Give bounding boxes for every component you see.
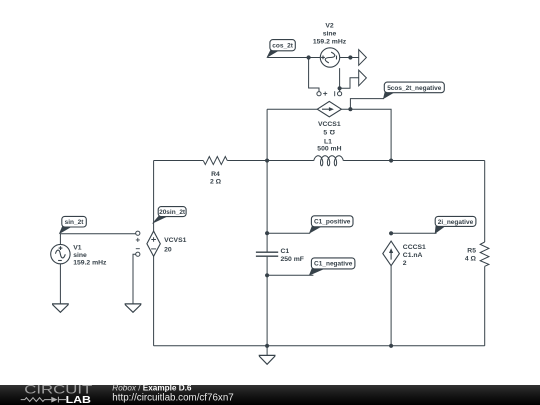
svg-text:sin_2t: sin_2t — [65, 219, 85, 226]
svg-text:VCVS1: VCVS1 — [164, 237, 187, 244]
svg-text:V2: V2 — [325, 22, 334, 29]
svg-text:sine: sine — [323, 31, 337, 38]
svg-text:V1: V1 — [73, 244, 82, 251]
svg-text:R4: R4 — [211, 171, 220, 178]
svg-text:159.2 mHz: 159.2 mHz — [313, 39, 347, 46]
svg-text:5cos_2t_negative: 5cos_2t_negative — [387, 85, 442, 92]
svg-text:500 mH: 500 mH — [317, 146, 341, 153]
svg-text:20sin_2t: 20sin_2t — [159, 209, 186, 216]
svg-text:LAB: LAB — [66, 395, 91, 405]
svg-text:Ω: Ω — [329, 128, 335, 135]
svg-text:VCCS1: VCCS1 — [318, 121, 341, 128]
svg-text:CCCS1: CCCS1 — [403, 244, 426, 251]
svg-text:sine: sine — [73, 252, 87, 259]
svg-text:C1.nA: C1.nA — [403, 252, 423, 259]
svg-text:2 Ω: 2 Ω — [210, 179, 222, 186]
svg-text:4 Ω: 4 Ω — [465, 256, 477, 263]
svg-text:cos_2t: cos_2t — [272, 43, 293, 50]
svg-text:5: 5 — [323, 130, 327, 137]
svg-text:http://circuitlab.com/cf76xn7: http://circuitlab.com/cf76xn7 — [112, 393, 233, 404]
svg-text:R5: R5 — [467, 248, 476, 255]
svg-text:250 mF: 250 mF — [281, 256, 304, 263]
svg-text:C1_positive: C1_positive — [314, 219, 351, 226]
svg-text:20: 20 — [164, 247, 172, 254]
svg-text:159.2 mHz: 159.2 mHz — [73, 259, 107, 266]
svg-text:C1: C1 — [281, 248, 290, 255]
svg-text:L1: L1 — [324, 139, 332, 146]
svg-text:2i_negative: 2i_negative — [438, 219, 474, 226]
svg-text:C1_negative: C1_negative — [314, 261, 353, 268]
svg-text:2: 2 — [403, 260, 407, 267]
svg-text:Robox / Example D.6: Robox / Example D.6 — [112, 384, 192, 393]
